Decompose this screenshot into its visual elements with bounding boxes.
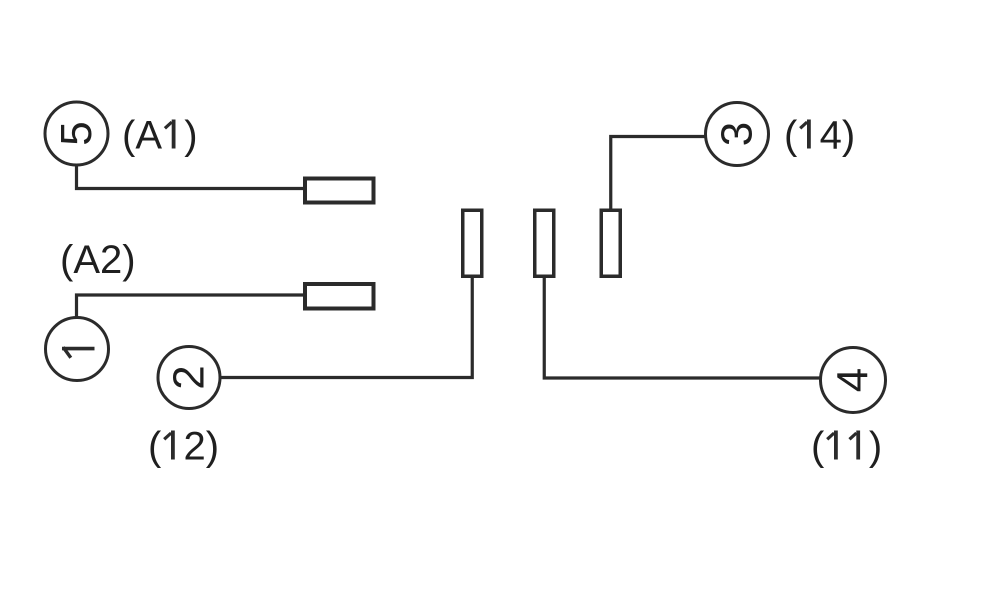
svg-text:2): 2) [184,425,220,469]
terminal circle 3 (14) [706,103,769,166]
coil terminal blade A2 [305,284,374,309]
coil terminal blade A1 [305,179,374,203]
svg-text:): ) [184,114,197,158]
terminal circle 1 (A2) [46,318,109,381]
contact blade C [601,210,620,276]
wire coil A1 [77,165,306,189]
wire contact 2 [221,278,473,378]
terminal circle 5 (A1) [45,102,108,165]
terminal circle 4 (11) [821,348,886,413]
svg-text:4: 4 [829,368,878,392]
terminal circle 2 (12) [158,347,220,409]
svg-text:(A: (A [122,114,162,158]
svg-text:2: 2 [165,365,214,389]
svg-text:(A2): (A2) [60,238,136,282]
svg-text:4): 4) [820,114,856,158]
svg-text:(: ( [811,425,825,469]
svg-text:3: 3 [713,122,762,146]
wire contact 3 [611,137,705,210]
svg-text:5: 5 [52,121,101,145]
wire coil A2 [77,295,306,318]
svg-text:(: ( [148,425,162,469]
wire contact 4 [544,277,820,378]
svg-text:(: ( [784,114,798,158]
svg-text:): ) [869,425,882,469]
contact blade B [535,210,554,276]
pin number 1 [62,347,95,351]
contact blade A [463,210,482,276]
